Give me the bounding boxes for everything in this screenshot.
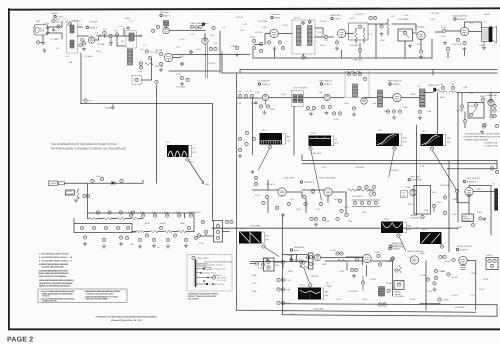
tube V7 audio output: [460, 27, 468, 35]
svg-text:C-5A: C-5A: [96, 50, 101, 53]
component R93: [443, 196, 446, 199]
svg-text:ANT: ANT: [56, 21, 61, 24]
on-off volume control box: [66, 190, 75, 195]
B+ corner jog: [432, 70, 434, 76]
svg-text:TUNER: TUNER: [51, 12, 58, 15]
extra value labels bottom band: [290, 252, 489, 316]
W7 callout tag: [397, 234, 406, 251]
svg-text:1.5 MEG ½W: 1.5 MEG ½W: [484, 142, 498, 145]
resistor R64: [88, 217, 101, 220]
svg-text:P-P: P-P: [265, 239, 269, 242]
ground G1: [41, 35, 45, 45]
wires controls rows: [74, 213, 194, 232]
resistor R67: [129, 217, 143, 220]
svg-text:R-118: R-118: [483, 278, 489, 281]
extra labels waveform row: [166, 129, 427, 287]
value labels vert output bottom: [252, 260, 332, 293]
AFC transformer box: [309, 253, 314, 269]
osc bottom parts: [176, 76, 189, 88]
svg-text:C-105: C-105: [374, 251, 380, 254]
horiz osc label: [390, 242, 404, 249]
capacitor C1: [44, 22, 49, 29]
keyed AGC note: [463, 136, 500, 148]
W4 callout tag: [389, 146, 396, 177]
V15 output parts: [338, 199, 348, 216]
volume control box: [398, 29, 413, 41]
long wire y303: [283, 304, 498, 305]
svg-text:SPKR: SPKR: [484, 13, 490, 16]
cathode resistors audio: [419, 47, 449, 58]
svg-text:C-109: C-109: [470, 272, 476, 275]
1st audio tube V6: [414, 26, 425, 40]
V8 cathode parts: [259, 101, 269, 114]
mixer coil dashed box: [126, 31, 137, 49]
antenna input jack J1: [34, 25, 48, 36]
waveform W3 video: [309, 136, 332, 147]
svg-text:NOTE: PARTS MARKED WITH ASTERI: NOTE: PARTS MARKED WITH ASTERISK (*): [39, 279, 74, 282]
phase control box: [394, 281, 404, 290]
svg-text:C-117: C-117: [470, 294, 476, 297]
svg-text:R-76 1MEG: R-76 1MEG: [352, 195, 363, 198]
component R102: [355, 257, 358, 260]
component C6: [109, 34, 112, 37]
wire vert cluster: [274, 255, 309, 269]
component C20: [231, 45, 239, 57]
W1 callout tag: [186, 158, 210, 186]
svg-text:+270V: +270V: [443, 299, 450, 302]
ext ant terminal 2: [68, 20, 81, 26]
svg-text:1ST AUDIO: 1ST AUDIO: [414, 26, 425, 29]
3rd video IF label: [388, 80, 402, 87]
svg-text:L-3A: L-3A: [108, 44, 113, 47]
svg-text:C-113: C-113: [362, 298, 368, 301]
control pots in box: [80, 226, 129, 229]
svg-text:12BH7A ✳: 12BH7A ✳: [304, 181, 315, 184]
W5 bracket: [444, 135, 451, 146]
label 2TV4 tuner: [51, 12, 64, 19]
extra stage labels top band: [236, 12, 490, 29]
svg-text:C-111: C-111: [336, 298, 342, 301]
T5 bottom parts: [418, 110, 422, 119]
coil above osc tube: [164, 21, 169, 27]
tube V10 driver: [361, 98, 367, 104]
ground on AGC line: [105, 104, 115, 110]
svg-text:1MEG: 1MEG: [160, 222, 166, 225]
svg-text:6AQ5A ✳: 6AQ5A ✳: [458, 18, 468, 21]
wire video amp: [465, 93, 491, 128]
component C62: [120, 179, 123, 182]
controls box outline: [74, 224, 132, 233]
AGC line bypass C: [84, 99, 92, 103]
V9 cathode parts: [321, 105, 341, 115]
alignment dashed box: [345, 70, 369, 98]
horiz osc wires: [325, 257, 393, 296]
vertical wire x252: [252, 98, 254, 155]
extra value labels tuner: [36, 20, 226, 73]
coil L3 peaking: [95, 32, 102, 37]
svg-text:C-101: C-101: [286, 254, 292, 257]
svg-text:C-108: C-108: [445, 260, 451, 263]
tube V3B osc: [202, 38, 208, 44]
svg-text:P-P: P-P: [403, 141, 407, 144]
note box left column: [41, 290, 76, 303]
svg-text:C-100: C-100: [262, 257, 268, 260]
value labels vert area: [406, 186, 482, 229]
svg-text:OSC-MIX: OSC-MIX: [160, 11, 169, 14]
branch row 3: [196, 272, 222, 278]
T1 primary coil: [297, 26, 302, 46]
value labels horiz area: [262, 249, 485, 297]
tube V19 vert osc: [410, 189, 416, 195]
T1 secondary coil: [308, 26, 313, 46]
svg-text:6CB6 ✳: 6CB6 ✳: [262, 83, 270, 86]
W5 callout tag: [430, 146, 456, 190]
resistor R63 vertical: [77, 189, 80, 199]
stabilizer adjust circles: [387, 287, 396, 293]
component R12: [212, 26, 215, 29]
svg-text:2ND VIDEO IF: 2ND VIDEO IF: [319, 80, 333, 83]
ground G3: [109, 38, 113, 45]
waveform W5 AGC curve 2: [421, 134, 444, 146]
svg-text:PILOT LIGHT: PILOT LIGHT: [197, 257, 210, 260]
branch row 2: [196, 267, 227, 270]
heater dots: [181, 51, 192, 65]
IF transformer T3: [292, 91, 304, 107]
svg-text:PAGE 2: PAGE 2: [7, 336, 33, 343]
extra control labels: [128, 211, 204, 249]
waveform W6 sawtooth down: [239, 232, 262, 244]
cap C92 with ground: [433, 282, 437, 291]
border frame left: [8, 8, 10, 330]
IF input coil cluster: [237, 90, 254, 98]
tube type label circled: [300, 181, 314, 184]
svg-text:1ST VIDEO IF: 1ST VIDEO IF: [257, 80, 271, 83]
resistor chain row2: [132, 230, 194, 233]
wire V9 to T4: [330, 97, 344, 99]
capacitor C33: [251, 101, 258, 105]
svg-text:R-9 15K: R-9 15K: [155, 49, 163, 52]
svg-text:B-62342 TO LGS: B-62342 TO LGS: [209, 264, 224, 267]
svg-text:50V: 50V: [265, 235, 269, 238]
test point TP2: [358, 43, 361, 52]
svg-text:C-103: C-103: [330, 249, 336, 252]
speaker SP1 dark magnet bar: [489, 26, 496, 43]
svg-text:LINE VOLTS SET FOR NOMINAL: LINE VOLTS SET FOR NOMINAL: [39, 275, 68, 278]
svg-text:6T8 ✳: 6T8 ✳: [335, 18, 341, 21]
svg-text:C-31 .047: C-31 .047: [430, 12, 440, 15]
svg-text:C-28 270: C-28 270: [355, 13, 364, 16]
cap stack: [439, 255, 455, 261]
wire osc row: [169, 31, 250, 74]
svg-text:CONTROL: CONTROL: [410, 216, 421, 219]
AFC wires: [250, 258, 363, 268]
svg-text:6SN7GTB: 6SN7GTB: [412, 179, 423, 182]
junction on +135 at x236: [235, 228, 236, 229]
value labels tuner area: [63, 18, 218, 76]
vertical wire to vert section: [417, 93, 438, 216]
svg-text:C-68 .047: C-68 .047: [355, 166, 365, 169]
svg-text:TO: TO: [326, 282, 329, 285]
svg-text:P-P: P-P: [193, 151, 197, 154]
svg-text:CONTROL: CONTROL: [463, 219, 471, 222]
bus tap caps pair 1: [277, 278, 291, 282]
svg-text:1. ADJUSTABLE ANTE. ATTEN.: 1. ADJUSTABLE ANTE. ATTEN.: [39, 252, 69, 255]
value labels sync area: [255, 183, 377, 223]
tube V18 horiz output: [459, 256, 467, 269]
IF transformer T4 block: [378, 90, 383, 107]
svg-text:VERT OUTPUT: VERT OUTPUT: [466, 177, 481, 180]
resistor R100: [338, 259, 346, 262]
svg-text:3. ADJUSTED FROM CHAN 2 - 6: 3. ADJUSTED FROM CHAN 2 - 6: [39, 260, 73, 263]
svg-text:SYNC SEP: SYNC SEP: [284, 177, 295, 180]
junction node A: [116, 35, 117, 36]
svg-text:ARE SPECIAL FOR USE IN THIS MO: ARE SPECIAL FOR USE IN THIS MODEL.: [39, 282, 73, 285]
two column note box: [38, 289, 127, 303]
AFC lower cap C102: [258, 258, 269, 270]
value labels IF strip: [237, 86, 474, 121]
svg-text:(Channel 2) thru 83 in. Ch. T: (Channel 2) thru 83 in. Ch. TS3: [111, 319, 142, 322]
resistor cluster: [434, 269, 444, 279]
output coil dashed box: [132, 76, 142, 85]
wire V6 to V7: [435, 31, 460, 32]
svg-text:R-107: R-107: [479, 288, 485, 291]
contrast row circles: [96, 211, 134, 214]
svg-text:15V: 15V: [447, 137, 451, 140]
svg-text:6SN7GTB: 6SN7GTB: [394, 246, 405, 249]
1st video IF label: [257, 80, 271, 87]
svg-text:R-110: R-110: [290, 313, 296, 316]
voltages paragraph: [39, 270, 70, 278]
value labels sound IF area: [240, 15, 484, 47]
audio output label: [452, 15, 468, 22]
W2 callout tag: [258, 145, 271, 171]
bus junction dots: [282, 254, 283, 304]
converter cathode parts: [159, 52, 163, 71]
B+ feed vertical to volume switch: [156, 85, 158, 183]
component R4: [114, 30, 119, 37]
svg-text:SOUND IF: SOUND IF: [271, 13, 281, 16]
det network box: [349, 23, 369, 40]
svg-text:VERT OSC: VERT OSC: [410, 176, 421, 179]
AFC input caps: [281, 258, 302, 264]
capacitor C5: [103, 31, 106, 37]
vertical wire x236 down: [236, 73, 238, 311]
svg-text:47.25MC TRAP: 47.25MC TRAP: [347, 70, 362, 73]
service note text: [51, 143, 126, 151]
bottom pair circles: [378, 303, 386, 306]
W9 callout tag: [309, 284, 312, 287]
IF strip main wire: [237, 97, 263, 99]
video det diode dark: [425, 84, 440, 93]
vert output transformer dark bar: [494, 189, 498, 211]
svg-text:HORIZ OSC: HORIZ OSC: [392, 242, 404, 245]
output transformer T2: [482, 28, 489, 42]
shielded lead pair: [206, 45, 208, 79]
tube V14 sync sep: [278, 188, 286, 196]
IF transformer T5 block: [417, 85, 425, 107]
cap pair C63: [83, 194, 90, 197]
audio B+ bottom wire: [253, 24, 432, 58]
W3 bracket: [332, 136, 339, 146]
svg-text:SYNC PHASE INV: SYNC PHASE INV: [319, 177, 336, 180]
svg-text:6AL5: 6AL5: [294, 249, 300, 252]
trap coil block: [353, 84, 358, 97]
focus bleeder circles: [225, 220, 233, 223]
svg-text:3RD VIDEO IF: 3RD VIDEO IF: [388, 80, 402, 83]
svg-text:6SN7: 6SN7: [420, 252, 426, 255]
resistor R1: [57, 25, 60, 28]
molded label box 1: [198, 264, 208, 267]
svg-text:INT T-1: INT T-1: [294, 17, 302, 20]
vertical bus x282: [282, 215, 284, 310]
terminal E2: [36, 41, 43, 44]
vert osc caps: [289, 254, 298, 261]
vertical wire x458: [457, 93, 459, 223]
svg-text:R-26 68K: R-26 68K: [350, 44, 359, 47]
V20 grid part: [455, 189, 458, 192]
border frame bottom: [8, 328, 500, 330]
waveform W4 AGC curve: [376, 134, 399, 147]
svg-text:YOKE: YOKE: [326, 285, 332, 288]
boost cap circle on wire: [438, 298, 450, 302]
wire audio row: [346, 24, 417, 34]
svg-text:POSITION, LINE AND SIGNAL INPU: POSITION, LINE AND SIGNAL INPUT.: [86, 292, 115, 295]
junction dot sound IF: [285, 33, 286, 34]
svg-text:R-105: R-105: [420, 274, 426, 277]
svg-text:R-79 47K: R-79 47K: [390, 169, 399, 172]
svg-text:R-104: R-104: [386, 282, 392, 285]
svg-text:C-2 1500: C-2 1500: [50, 38, 59, 41]
vert output label top: [463, 177, 481, 184]
B+ distribution wire lower: [222, 52, 497, 73]
wire phono to controls: [65, 180, 144, 183]
converter section wires: [131, 35, 142, 37]
crystal dark square: [202, 23, 205, 26]
svg-text:REFER TO THE SERVICE PARTS LIS: REFER TO THE SERVICE PARTS LIST.: [39, 285, 71, 288]
B+ feed top part: [155, 80, 158, 83]
wire to focus box: [200, 232, 230, 237]
svg-text:RECEIVER MAKES IT POSSIBLE TO: RECEIVER MAKES IT POSSIBLE TO BRING YOU …: [51, 148, 126, 151]
RF amp label: [86, 21, 98, 30]
svg-text:C-110: C-110: [452, 294, 458, 297]
svg-text:R-23 220K: R-23 220K: [258, 20, 268, 23]
svg-text:C-102: C-102: [258, 267, 265, 270]
waveform W7 vert cusps: [381, 222, 403, 234]
wire V7 plate to T2: [465, 22, 482, 32]
converter plate wire: [142, 58, 221, 81]
vert osc resistors: [300, 256, 310, 269]
svg-text:L-100 LINE: L-100 LINE: [311, 152, 322, 155]
bus tap caps pair 3: [277, 301, 291, 305]
wire to mixer: [117, 28, 131, 46]
svg-text:SEE CHART: SEE CHART: [188, 298, 200, 301]
height control label: [410, 214, 424, 220]
phono jack J2: [49, 181, 65, 186]
wire V11 to T5: [383, 97, 420, 99]
V11 cathode parts: [386, 110, 401, 119]
resistor R8: [151, 25, 159, 32]
coil L7: [135, 78, 138, 81]
tube V17 horiz control: [407, 250, 424, 264]
tube V13 video amp: [486, 94, 498, 106]
svg-text:R-91: R-91: [401, 192, 405, 195]
svg-text:TOLERANCE OF 20%.: TOLERANCE OF 20%.: [42, 300, 57, 303]
ext antenna terminal E1: [52, 18, 61, 24]
svg-text:VALUES ARE CHECKED: VALUES ARE CHECKED: [42, 265, 65, 268]
bus tap caps pair 2: [277, 288, 291, 292]
svg-text:TO KEEP PERFORMANCE UP TO PAR: TO KEEP PERFORMANCE UP TO PAR IN: [463, 136, 500, 139]
svg-text:R-114: R-114: [410, 298, 416, 301]
grounds audio: [408, 41, 486, 50]
trimmer C17: [209, 47, 217, 50]
wire plate V1: [95, 36, 118, 40]
svg-text:READINGS SHOWN HEREIN.: READINGS SHOWN HEREIN.: [86, 298, 108, 301]
tube V1 RF amp: [88, 37, 94, 43]
input arrow part: [250, 262, 259, 265]
tube V3 converter: [164, 53, 172, 61]
diode CR1: [112, 181, 116, 185]
svg-text:6AQ5A ✳: 6AQ5A ✳: [467, 181, 477, 184]
svg-text:R-10 10K: R-10 10K: [155, 65, 164, 68]
svg-text:6CB6 ✳: 6CB6 ✳: [393, 83, 401, 86]
audio coupling parts: [369, 16, 384, 35]
W3 callout tag: [309, 146, 322, 200]
sound IF transformer T1 dashed box: [292, 20, 315, 54]
svg-text:6U8 ✳: 6U8 ✳: [164, 15, 171, 18]
tube V20 vert output: [465, 187, 473, 196]
svg-text:BRIGHTNESS: BRIGHTNESS: [188, 211, 202, 214]
svg-text:P-P: P-P: [447, 141, 451, 144]
svg-text:R-116 10K: R-116 10K: [455, 306, 465, 309]
svg-text:RF AMP: RF AMP: [90, 21, 98, 24]
tube V5 audio det: [337, 29, 345, 37]
horiz output label: [456, 245, 472, 252]
grid parts 2nd IF: [306, 106, 315, 115]
svg-text:VOLUME: VOLUME: [399, 30, 407, 33]
border frame top: [8, 8, 500, 9]
grid components cluster: [82, 42, 86, 51]
svg-text:SIGNAL. ZERO VOLTAGE POINTS AN: SIGNAL. ZERO VOLTAGE POINTS AND: [39, 272, 70, 275]
AGC lower parts: [480, 123, 498, 133]
W1 bracket and value: [190, 146, 197, 157]
W6 bracket: [263, 232, 270, 243]
stabilizer coil dark: [379, 287, 385, 297]
test point TP1: [302, 54, 309, 60]
parts box junction dots: [200, 268, 214, 285]
W7 bracket: [405, 222, 412, 233]
linearity parts: [471, 217, 486, 227]
parts box caption: [188, 293, 220, 301]
T4 bottom parts: [352, 107, 356, 116]
waveform W8 sawtooth up: [420, 232, 442, 244]
svg-text:470MMF: 470MMF: [105, 107, 114, 110]
wire det out: [457, 92, 500, 94]
svg-text:R-112 8.2K: R-112 8.2K: [348, 290, 359, 293]
V1 grid parts: [79, 39, 84, 47]
phase control label: [395, 291, 404, 299]
focus control vertical box: [214, 221, 223, 243]
stage cathode drop wires: [275, 39, 465, 58]
svg-text:AGC: AGC: [469, 105, 474, 108]
svg-text:C-26 5: C-26 5: [320, 20, 327, 23]
tube V21 horiz AFC: [314, 254, 320, 260]
W2 bracket: [284, 134, 291, 145]
trap components in box: [347, 70, 367, 81]
osc grid parts: [139, 50, 153, 69]
coil L5 dark block: [128, 49, 133, 65]
peaking coil L41: [449, 83, 457, 93]
W9 callout diagonal: [304, 268, 310, 283]
